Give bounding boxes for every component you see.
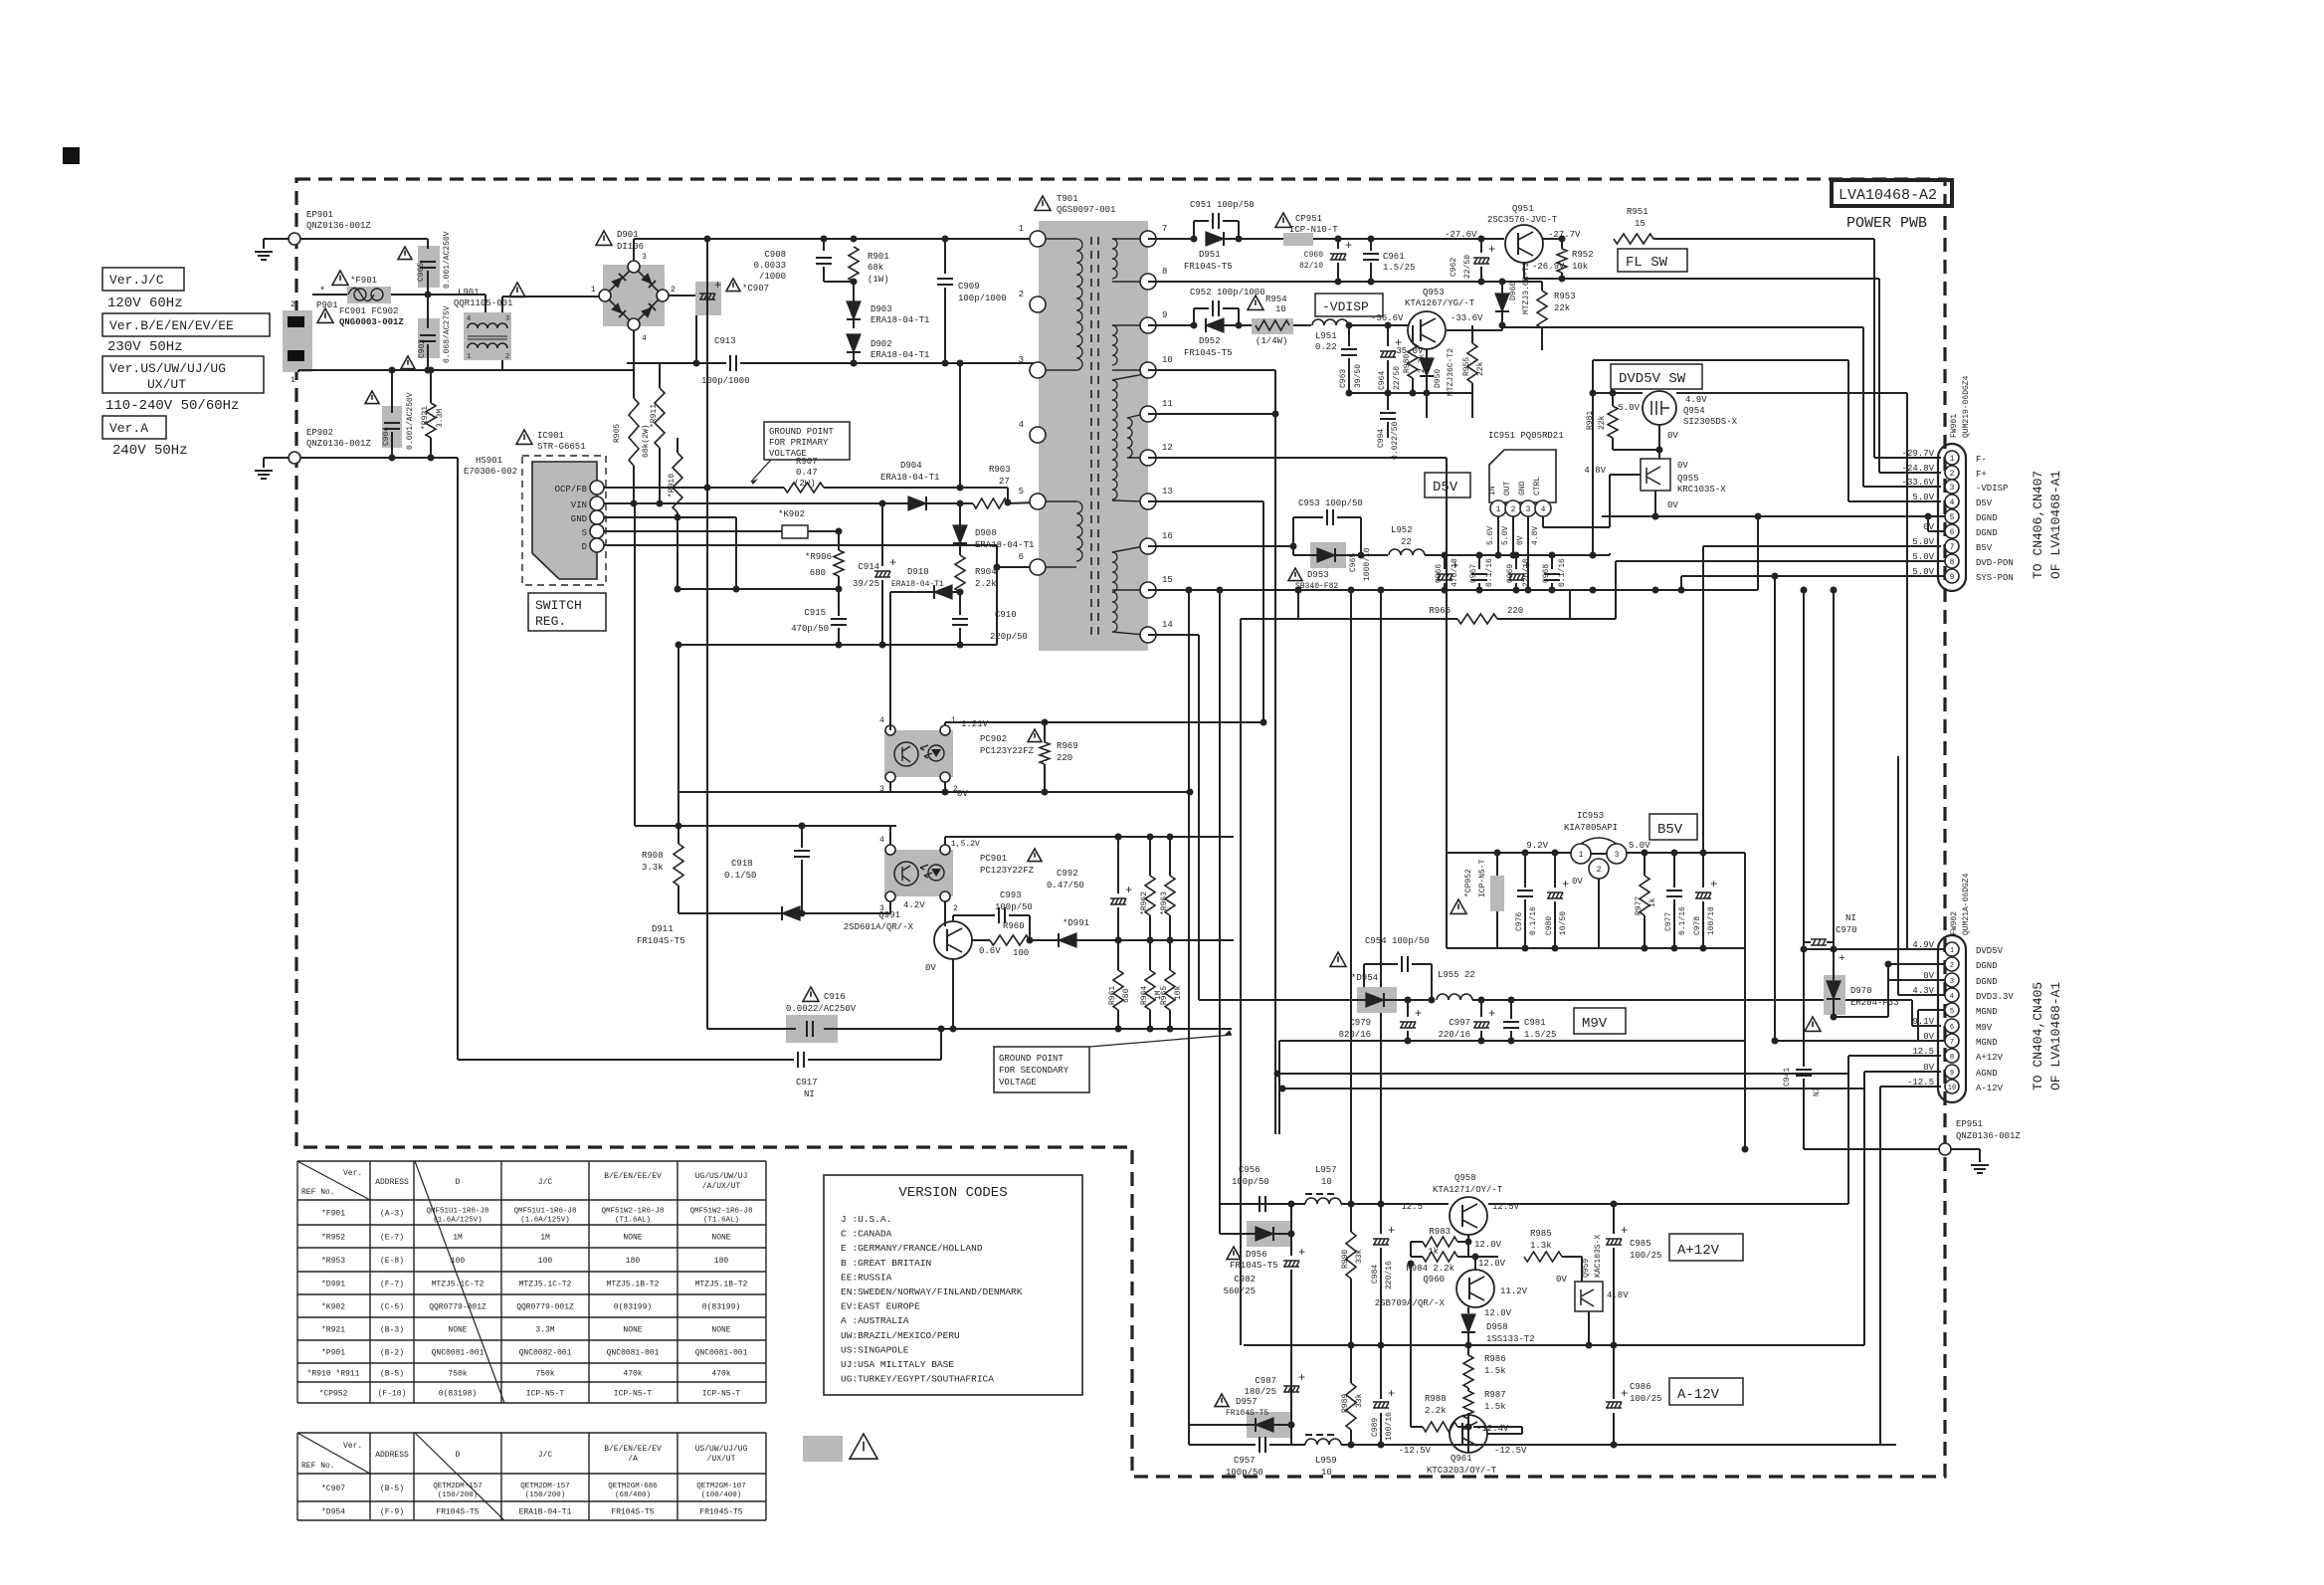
svg-text:J/C: J/C bbox=[538, 1178, 553, 1187]
svg-text:5.0V: 5.0V bbox=[1618, 403, 1640, 413]
svg-text:180: 180 bbox=[626, 1257, 641, 1266]
svg-text:POWER PWB: POWER PWB bbox=[1846, 215, 1927, 232]
svg-text:/UX/UT: /UX/UT bbox=[707, 1455, 736, 1464]
svg-text:+: + bbox=[1415, 1007, 1422, 1021]
svg-text:39/25: 39/25 bbox=[853, 579, 879, 589]
svg-text:DI106: DI106 bbox=[617, 242, 644, 252]
primary bottom bus bbox=[678, 644, 997, 646]
svg-text:0V: 0V bbox=[1677, 461, 1688, 471]
svg-text:5.0V: 5.0V bbox=[1912, 537, 1934, 547]
svg-text:+: + bbox=[1125, 884, 1132, 897]
optocoupler PC901 PC123Y22FZ bbox=[884, 850, 953, 896]
svg-text:MGND: MGND bbox=[1976, 1038, 1998, 1048]
svg-text:R961: R961 bbox=[1108, 986, 1117, 1005]
svg-text:D5V: D5V bbox=[1433, 480, 1458, 495]
svg-text:+: + bbox=[714, 279, 721, 293]
R986 1.5k bbox=[1463, 1355, 1473, 1388]
D958 1SS133-T2 bbox=[1467, 1307, 1469, 1313]
svg-text:FR104S-T5: FR104S-T5 bbox=[637, 936, 685, 946]
svg-text:*R952: *R952 bbox=[321, 1234, 345, 1243]
svg-text:Ver.J/C: Ver.J/C bbox=[109, 273, 164, 288]
svg-text:Q961: Q961 bbox=[1451, 1454, 1472, 1464]
svg-text:D5V: D5V bbox=[1976, 498, 1993, 508]
svg-text:470k: 470k bbox=[711, 1370, 730, 1379]
svg-text:(1/4W): (1/4W) bbox=[1256, 336, 1287, 346]
svg-text:NONE: NONE bbox=[448, 1326, 467, 1335]
svg-text:ERA18-04-T1: ERA18-04-T1 bbox=[880, 473, 939, 483]
svg-text:QNG0003-001Z: QNG0003-001Z bbox=[339, 317, 404, 327]
svg-text:+: + bbox=[1839, 953, 1845, 965]
svg-text:C979: C979 bbox=[1349, 1018, 1371, 1028]
svg-text:MTZJ5.1B-T2: MTZJ5.1B-T2 bbox=[607, 1281, 660, 1289]
svg-text:Q991: Q991 bbox=[878, 910, 900, 920]
svg-text:13: 13 bbox=[1162, 487, 1173, 496]
svg-text:27: 27 bbox=[999, 477, 1010, 487]
svg-text:Ver.A: Ver.A bbox=[109, 421, 148, 436]
svg-text:0V: 0V bbox=[1667, 500, 1678, 510]
Q960 2SB709A/QR/-X bbox=[1456, 1270, 1494, 1307]
svg-text:EE:RUSSIA: EE:RUSSIA bbox=[841, 1272, 892, 1283]
svg-text:4: 4 bbox=[1541, 505, 1546, 514]
svg-text:C967: C967 bbox=[1469, 564, 1478, 583]
svg-text:-36.6V: -36.6V bbox=[1371, 313, 1404, 323]
svg-text:*F901: *F901 bbox=[321, 1210, 345, 1219]
svg-text:0.001/AC250V: 0.001/AC250V bbox=[443, 231, 452, 289]
svg-text:MTZJ5.1C-T2: MTZJ5.1C-T2 bbox=[432, 1281, 484, 1289]
version label Ver.B/E/EN/EV/EE bbox=[102, 313, 270, 336]
svg-text:0.1/16: 0.1/16 bbox=[1529, 906, 1538, 935]
svg-text:10: 10 bbox=[1162, 355, 1173, 365]
diode D903 bbox=[847, 301, 861, 319]
parts version table 2 bbox=[297, 1432, 766, 1434]
svg-text:100/25: 100/25 bbox=[1630, 1394, 1661, 1404]
svg-text:R969: R969 bbox=[1057, 741, 1078, 751]
svg-text:R904: R904 bbox=[975, 567, 997, 577]
svg-text:R953: R953 bbox=[1554, 292, 1576, 301]
svg-text:4: 4 bbox=[1019, 420, 1024, 430]
svg-text:14: 14 bbox=[1162, 620, 1173, 630]
svg-text:IN: IN bbox=[1488, 486, 1497, 495]
C987 180/25 bbox=[1290, 1373, 1292, 1425]
svg-text:4: 4 bbox=[879, 716, 884, 725]
A+12V / AGND feed lines bbox=[1277, 1073, 1848, 1075]
C916 0.0022/AC250V bbox=[803, 987, 819, 1001]
M9V to FW902 pin6 bbox=[1911, 1000, 1913, 1026]
svg-text:(B-3): (B-3) bbox=[380, 1326, 404, 1335]
svg-text:MTZJ3.6B-T2: MTZJ3.6B-T2 bbox=[1522, 262, 1531, 314]
svg-text:NI: NI bbox=[1813, 1087, 1822, 1096]
DVD5V SW box bbox=[1611, 364, 1702, 389]
svg-text:FR104S-T5: FR104S-T5 bbox=[1230, 1261, 1278, 1271]
svg-text:D902: D902 bbox=[871, 339, 892, 349]
svg-text:22k: 22k bbox=[1554, 303, 1570, 313]
wire Q953 collector to -VDISP out bbox=[1447, 329, 1502, 331]
svg-text:5.0V: 5.0V bbox=[1629, 841, 1650, 851]
B5V up to FW901 pin7 bbox=[1702, 546, 1704, 853]
svg-text:NONE: NONE bbox=[711, 1326, 730, 1335]
svg-text:0V: 0V bbox=[1667, 431, 1678, 441]
svg-text:(B-5): (B-5) bbox=[380, 1485, 404, 1493]
R955 22k bbox=[1467, 343, 1477, 383]
svg-text:C978: C978 bbox=[1693, 916, 1702, 935]
svg-text:D952: D952 bbox=[1199, 336, 1221, 346]
GROUND POINT FOR SECONDARY VOLTAGE bbox=[994, 1047, 1089, 1092]
svg-text:2: 2 bbox=[1019, 290, 1024, 299]
svg-text:(E-8): (E-8) bbox=[380, 1257, 404, 1266]
svg-text:1.5/25: 1.5/25 bbox=[1383, 263, 1415, 273]
svg-text:CTRL: CTRL bbox=[1533, 477, 1542, 495]
svg-text:4.2V: 4.2V bbox=[903, 900, 925, 910]
Q961 KTC3203/OY/-T bbox=[1450, 1415, 1487, 1453]
svg-text:C953 100p/50: C953 100p/50 bbox=[1298, 498, 1363, 508]
svg-text:10k: 10k bbox=[1572, 262, 1588, 272]
wire plug to fuse bbox=[312, 294, 347, 296]
svg-text:3.3k: 3.3k bbox=[642, 863, 664, 873]
svg-text:(T1.6AL): (T1.6AL) bbox=[703, 1217, 739, 1225]
svg-text:D957: D957 bbox=[1236, 1397, 1258, 1407]
svg-text:-12.5V: -12.5V bbox=[1399, 1446, 1432, 1456]
C986 100/25 bbox=[1613, 1413, 1615, 1445]
page marker square bbox=[63, 147, 80, 164]
svg-text:TO CN404,CN405: TO CN404,CN405 bbox=[2031, 982, 2045, 1090]
A+12V box bbox=[1669, 1234, 1743, 1261]
svg-text:QNC0081-001: QNC0081-001 bbox=[607, 1349, 660, 1358]
svg-text:-27.6V: -27.6V bbox=[1445, 230, 1477, 240]
svg-text:10/50: 10/50 bbox=[1559, 911, 1568, 935]
T901 secondary winding 10-13 bbox=[1112, 380, 1117, 499]
svg-text:C909: C909 bbox=[958, 282, 980, 292]
svg-text:R988: R988 bbox=[1425, 1394, 1447, 1404]
svg-text:6: 6 bbox=[1019, 552, 1024, 562]
svg-text:15: 15 bbox=[1162, 575, 1173, 585]
svg-text:D956: D956 bbox=[1246, 1250, 1267, 1260]
D953 SB340-F82 bbox=[1310, 542, 1346, 568]
svg-text:MTZJ5.1C-T2: MTZJ5.1C-T2 bbox=[519, 1281, 572, 1289]
main dashed board outline LVA10468-A2 bbox=[296, 179, 1945, 1477]
svg-text:R952: R952 bbox=[1572, 250, 1594, 260]
C954 100p/50 bbox=[1330, 952, 1346, 966]
svg-text:(F-7): (F-7) bbox=[380, 1281, 404, 1289]
svg-text:NONE: NONE bbox=[623, 1326, 642, 1335]
DVD5V rail to FW902 pin1 bbox=[1593, 392, 1643, 394]
T901 pins right bbox=[1140, 231, 1156, 247]
C977 0.1/16 bbox=[1671, 850, 1678, 857]
pin12 rail to B5V bbox=[1148, 457, 1447, 459]
svg-text:7: 7 bbox=[1950, 1039, 1954, 1047]
svg-text:(1.6A/125V): (1.6A/125V) bbox=[433, 1217, 483, 1225]
C917 NI bbox=[457, 458, 459, 1060]
svg-text:1.5/25: 1.5/25 bbox=[1524, 1030, 1556, 1040]
pin11 rail bbox=[1148, 413, 1275, 415]
plug P901 bbox=[283, 310, 312, 372]
transformer T901 QGS0097-001 bbox=[1035, 196, 1051, 210]
L955 22 bbox=[1437, 994, 1472, 1000]
svg-text:D908: D908 bbox=[975, 528, 997, 538]
D5V gnd connection bbox=[1295, 587, 1302, 594]
svg-text:470p/50: 470p/50 bbox=[791, 624, 829, 634]
svg-text:+: + bbox=[1488, 243, 1495, 257]
T901 tap winding 11-12 bbox=[1127, 418, 1132, 458]
svg-text:FW901: FW901 bbox=[1950, 414, 1959, 438]
svg-text:J :U.S.A.: J :U.S.A. bbox=[841, 1214, 891, 1225]
svg-text:C954 100p/50: C954 100p/50 bbox=[1365, 936, 1430, 946]
svg-text:GND: GND bbox=[571, 514, 587, 524]
svg-text:*K902: *K902 bbox=[321, 1303, 345, 1312]
svg-text:C957: C957 bbox=[1234, 1456, 1256, 1466]
wire VIN bbox=[604, 502, 906, 504]
svg-text:+: + bbox=[1388, 1224, 1395, 1238]
R962 R963 bbox=[1145, 876, 1155, 915]
C989 100/16 bbox=[1378, 1442, 1385, 1449]
R952 10k bbox=[1543, 238, 1562, 240]
svg-text:C963: C963 bbox=[1339, 369, 1348, 388]
svg-text:100: 100 bbox=[1013, 948, 1029, 958]
svg-text:QNC0082-001: QNC0082-001 bbox=[519, 1349, 572, 1358]
svg-text:DVD5V SW: DVD5V SW bbox=[1619, 371, 1686, 387]
svg-text:0.1/16: 0.1/16 bbox=[1678, 906, 1687, 935]
svg-text:4: 4 bbox=[642, 334, 647, 343]
svg-text:0.47: 0.47 bbox=[796, 468, 818, 478]
svg-text:100/16: 100/16 bbox=[1385, 1412, 1394, 1441]
svg-text:C917: C917 bbox=[796, 1078, 818, 1088]
capacitor C905 bbox=[418, 246, 440, 288]
svg-text:EP901: EP901 bbox=[306, 210, 333, 220]
svg-text:QMF51W2-1R6-J8: QMF51W2-1R6-J8 bbox=[601, 1208, 664, 1216]
svg-text:/1000: /1000 bbox=[759, 272, 786, 282]
svg-text:D950: D950 bbox=[1434, 369, 1443, 388]
svg-text:*C907: *C907 bbox=[742, 284, 769, 294]
T901 primary winding 5-6 bbox=[1043, 500, 1076, 502]
svg-text:US:SINGAPOLE: US:SINGAPOLE bbox=[841, 1344, 909, 1355]
svg-text:DGND: DGND bbox=[1976, 977, 1998, 987]
diode D951 bbox=[1206, 232, 1224, 246]
svg-text:9: 9 bbox=[1162, 310, 1167, 320]
svg-text:MTZJ36C-T2: MTZJ36C-T2 bbox=[1447, 348, 1455, 396]
svg-text:2: 2 bbox=[290, 300, 295, 309]
svg-text:R907: R907 bbox=[796, 457, 818, 467]
svg-text:KAC103S-X: KAC103S-X bbox=[1594, 1235, 1603, 1278]
svg-text:100: 100 bbox=[451, 1257, 466, 1266]
svg-text:R960: R960 bbox=[1003, 921, 1025, 931]
PC902 wires bbox=[944, 722, 946, 725]
svg-text:GROUND POINT: GROUND POINT bbox=[769, 427, 834, 437]
svg-text:M9V: M9V bbox=[1976, 1023, 1993, 1033]
svg-text:ERA18-04-T1: ERA18-04-T1 bbox=[891, 580, 944, 589]
capacitor C966 bbox=[1442, 552, 1449, 559]
svg-text:2: 2 bbox=[953, 904, 958, 913]
svg-text:-12.5: -12.5 bbox=[1907, 1078, 1934, 1088]
svg-text:*D954: *D954 bbox=[1351, 973, 1378, 983]
svg-text:C913: C913 bbox=[714, 336, 736, 346]
svg-text:1.3k: 1.3k bbox=[1530, 1241, 1552, 1251]
svg-text:NONE: NONE bbox=[711, 1234, 730, 1243]
svg-text:DGND: DGND bbox=[1976, 513, 1998, 523]
svg-text:3: 3 bbox=[1526, 505, 1531, 514]
svg-text:R987: R987 bbox=[1484, 1390, 1506, 1400]
svg-text:C977: C977 bbox=[1664, 912, 1673, 931]
svg-text:QNZ0136-001Z: QNZ0136-001Z bbox=[306, 439, 371, 449]
svg-text:Q960: Q960 bbox=[1423, 1275, 1445, 1285]
svg-text:TO CN406,CN407: TO CN406,CN407 bbox=[2031, 471, 2045, 579]
svg-text:10: 10 bbox=[1275, 304, 1286, 314]
svg-text:*R910 *R911: *R910 *R911 bbox=[307, 1370, 360, 1379]
svg-text:(150/200): (150/200) bbox=[438, 1491, 479, 1499]
svg-text:C985: C985 bbox=[1630, 1239, 1651, 1249]
svg-text:*CP952: *CP952 bbox=[319, 1390, 348, 1399]
R965 10k bbox=[1165, 970, 1175, 1010]
svg-text:Q953: Q953 bbox=[1423, 288, 1445, 297]
C960 82/10 bbox=[1335, 236, 1342, 243]
svg-text:1: 1 bbox=[467, 353, 471, 361]
svg-text:*D954: *D954 bbox=[321, 1508, 345, 1517]
svg-text:A :AUSTRALIA: A :AUSTRALIA bbox=[841, 1315, 909, 1326]
R961 680 bbox=[1113, 970, 1123, 1010]
svg-text:*R910: *R910 bbox=[668, 474, 677, 497]
svg-text:FW902: FW902 bbox=[1950, 911, 1959, 935]
svg-text:0(83199): 0(83199) bbox=[702, 1303, 740, 1312]
svg-text:R986: R986 bbox=[1484, 1354, 1506, 1364]
svg-text:Q951: Q951 bbox=[1512, 204, 1534, 214]
svg-text:180: 180 bbox=[714, 1257, 729, 1266]
svg-text:750k: 750k bbox=[448, 1370, 467, 1379]
B5V box bbox=[1649, 814, 1697, 840]
svg-text:FR104S-T5: FR104S-T5 bbox=[1184, 348, 1233, 358]
svg-text:680: 680 bbox=[1122, 988, 1131, 1003]
svg-text:KTA1271/OY/-T: KTA1271/OY/-T bbox=[1433, 1185, 1503, 1195]
svg-text:ER204-F33: ER204-F33 bbox=[1850, 998, 1899, 1008]
svg-text:FR104S-T5: FR104S-T5 bbox=[699, 1508, 742, 1517]
R989 33k bbox=[1348, 1442, 1355, 1449]
svg-text:22/50: 22/50 bbox=[1463, 255, 1472, 279]
svg-text:D910: D910 bbox=[907, 567, 929, 577]
capacitor C969 bbox=[1513, 552, 1520, 559]
svg-text:UG:TURKEY/EGYPT/SOUTHAFRICA: UG:TURKEY/EGYPT/SOUTHAFRICA bbox=[841, 1374, 994, 1385]
svg-text:100p/1000: 100p/1000 bbox=[958, 294, 1007, 303]
svg-text:10k: 10k bbox=[1174, 985, 1183, 1000]
svg-text:3: 3 bbox=[1019, 355, 1024, 365]
svg-text:GROUND POINT: GROUND POINT bbox=[999, 1054, 1064, 1064]
svg-text:QMF51W2-1R6-J8: QMF51W2-1R6-J8 bbox=[689, 1208, 752, 1216]
T901 secondary winding 9-10 bbox=[1112, 324, 1144, 326]
svg-text:R977: R977 bbox=[1635, 896, 1644, 915]
svg-text:F-: F- bbox=[1976, 455, 1987, 465]
svg-text:(B-2): (B-2) bbox=[380, 1349, 404, 1358]
svg-text:B/E/EN/EE/EV: B/E/EN/EE/EV bbox=[604, 1445, 662, 1454]
svg-text:100/10: 100/10 bbox=[1707, 906, 1716, 935]
C982 560/25 bbox=[1290, 1234, 1292, 1256]
svg-text:*C907: *C907 bbox=[321, 1485, 345, 1493]
svg-text:+: + bbox=[1621, 1387, 1628, 1401]
svg-text:100/25: 100/25 bbox=[1630, 1251, 1661, 1261]
svg-text:(C-5): (C-5) bbox=[380, 1303, 404, 1312]
svg-text:OCP/FB: OCP/FB bbox=[555, 485, 588, 495]
svg-text:STR-G6651: STR-G6651 bbox=[537, 442, 586, 452]
svg-text:A-12V: A-12V bbox=[1677, 1387, 1720, 1403]
svg-text:L955 22: L955 22 bbox=[1438, 970, 1475, 980]
R954 10 fusible bbox=[1248, 296, 1263, 309]
svg-text:D911: D911 bbox=[652, 924, 674, 934]
svg-text:0V: 0V bbox=[1572, 877, 1583, 887]
svg-text:C986: C986 bbox=[1630, 1382, 1651, 1392]
svg-text:DGND: DGND bbox=[1976, 961, 1998, 971]
svg-text:0.0022/AC250V: 0.0022/AC250V bbox=[786, 1004, 857, 1014]
svg-text:QNZ0136-001Z: QNZ0136-001Z bbox=[1956, 1131, 2021, 1141]
svg-text:LVA10468-A2: LVA10468-A2 bbox=[1839, 187, 1937, 204]
svg-text:1000/10: 1000/10 bbox=[1363, 547, 1372, 581]
svg-text:11.2V: 11.2V bbox=[1500, 1287, 1528, 1296]
svg-text:C969: C969 bbox=[1506, 564, 1515, 583]
svg-text:3: 3 bbox=[1950, 978, 1954, 986]
MGND pins 5,7 bbox=[1918, 1009, 1945, 1011]
wire bridge pin2 down bbox=[669, 295, 696, 297]
A+12V rail to FW902 pin8 bbox=[1488, 1203, 1848, 1205]
svg-text:ERA18-04-T1: ERA18-04-T1 bbox=[975, 540, 1034, 550]
svg-text:10: 10 bbox=[1321, 1468, 1332, 1478]
svg-text:5: 5 bbox=[1019, 487, 1024, 496]
svg-text:Ver.US/UW/UJ/UG: Ver.US/UW/UJ/UG bbox=[109, 361, 226, 376]
svg-text:EP902: EP902 bbox=[306, 428, 333, 438]
svg-text:22: 22 bbox=[1401, 537, 1412, 547]
svg-text:2: 2 bbox=[671, 286, 676, 295]
svg-text:1: 1 bbox=[290, 376, 295, 385]
svg-text:7: 7 bbox=[1950, 543, 1955, 552]
svg-text:R905: R905 bbox=[613, 424, 622, 443]
svg-text:OF LVA10468-A1: OF LVA10468-A1 bbox=[2048, 982, 2063, 1090]
svg-text:C966: C966 bbox=[1435, 564, 1444, 583]
svg-text:4: 4 bbox=[879, 836, 884, 845]
svg-text:110-240V 50/60Hz: 110-240V 50/60Hz bbox=[105, 398, 239, 414]
svg-text:IC953: IC953 bbox=[1577, 811, 1604, 821]
wire GND bbox=[604, 516, 736, 518]
svg-text:C981: C981 bbox=[1524, 1018, 1546, 1028]
svg-text:C952 100p/1000: C952 100p/1000 bbox=[1190, 288, 1265, 297]
svg-text:L952: L952 bbox=[1391, 525, 1413, 535]
svg-text:2: 2 bbox=[1950, 962, 1954, 970]
svg-text:M9V: M9V bbox=[1582, 1016, 1608, 1032]
capacitor C904 bbox=[382, 406, 402, 448]
svg-text:MTZJ5.1B-T2: MTZJ5.1B-T2 bbox=[695, 1281, 748, 1289]
svg-text:NONE: NONE bbox=[623, 1234, 642, 1243]
svg-text:100p/50: 100p/50 bbox=[1232, 1177, 1269, 1187]
SWITCH REG. box bbox=[528, 593, 606, 631]
svg-text:C916: C916 bbox=[824, 992, 846, 1002]
svg-text:(100/400): (100/400) bbox=[701, 1491, 742, 1499]
R987 1.5k bbox=[1463, 1391, 1473, 1419]
svg-text:NI: NI bbox=[804, 1090, 815, 1099]
diode D902 bbox=[847, 334, 861, 352]
svg-text:100: 100 bbox=[538, 1257, 553, 1266]
svg-text:R903: R903 bbox=[989, 465, 1011, 475]
svg-text:12.0V: 12.0V bbox=[1484, 1308, 1512, 1318]
R980 2.7k bbox=[1408, 343, 1418, 378]
svg-text:KTA1267/YG/-T: KTA1267/YG/-T bbox=[1405, 298, 1475, 308]
Q959 KAC103S-X bbox=[1575, 1282, 1603, 1311]
Q991 emitter down bbox=[952, 959, 954, 1023]
svg-text:B5V: B5V bbox=[1657, 822, 1683, 838]
svg-text:FR104S-T5: FR104S-T5 bbox=[1226, 1409, 1268, 1418]
svg-text:VERSION CODES: VERSION CODES bbox=[898, 1185, 1007, 1201]
svg-text:0.001/AC250V: 0.001/AC250V bbox=[406, 392, 415, 450]
svg-text:QQR0779-001Z: QQR0779-001Z bbox=[429, 1303, 486, 1312]
svg-text:+: + bbox=[1298, 1371, 1305, 1385]
IC951 pin stubs bbox=[1495, 552, 1502, 559]
C918 0.1/50 bbox=[801, 826, 803, 848]
svg-text:*R906: *R906 bbox=[805, 552, 832, 562]
T901 secondary winding 7-8 bbox=[1112, 238, 1144, 240]
svg-text:DVD5V: DVD5V bbox=[1976, 946, 2004, 956]
svg-text:8: 8 bbox=[1162, 267, 1167, 277]
svg-text:*R921: *R921 bbox=[321, 1326, 345, 1335]
